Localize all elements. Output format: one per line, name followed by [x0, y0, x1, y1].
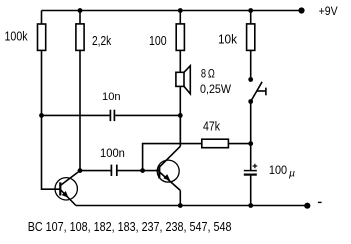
node bottom rail / T2 emitter: [178, 203, 183, 208]
wire 10k to switch: [250, 50, 252, 79]
node T1 collector / 2,2k / 100n: [78, 168, 83, 173]
resistor 2,2k: [76, 24, 84, 51]
resistor 47k: [202, 139, 229, 148]
transistor Q2: [157, 146, 180, 190]
node switch contact bottom: [248, 99, 253, 104]
switch S1 pushbutton: [251, 82, 266, 102]
wire 2,2k column bottom: [79, 50, 81, 170]
node T2 base / 100n / 47k: [140, 168, 145, 173]
terminal minus: [304, 203, 310, 209]
node 47k / 10k column: [248, 141, 253, 146]
capacitor 100n: [111, 165, 116, 176]
wire 2,2k column top: [79, 11, 81, 24]
wire 100k column top: [41, 11, 43, 25]
node bottom rail / 100u: [248, 203, 253, 208]
svg-text:+9V: +9V: [319, 4, 338, 18]
node T2 collector / 10n: [178, 113, 183, 118]
svg-text:47k: 47k: [203, 120, 221, 134]
node top rail / 10k: [248, 8, 253, 13]
svg-text:10k: 10k: [218, 32, 237, 47]
label minus: [318, 201, 322, 203]
wire 100 column top: [179, 11, 181, 24]
svg-text:100: 100: [269, 163, 287, 177]
capacitor 10n: [110, 110, 114, 121]
svg-text:2,2k: 2,2k: [92, 33, 112, 48]
wire 10k column top: [250, 11, 252, 24]
resistor 10k: [247, 24, 255, 51]
wire T2 collector riser: [179, 115, 181, 146]
svg-text:8 Ω: 8 Ω: [201, 67, 215, 81]
wire 47k right: [228, 143, 250, 145]
wire 100n left: [80, 170, 111, 172]
resistor 100: [176, 24, 184, 51]
svg-text:BC 107, 108, 182, 183, 237, 23: BC 107, 108, 182, 183, 237, 238, 547, 54…: [28, 219, 232, 234]
resistor 100k: [38, 24, 46, 50]
capacitor 100u electrolytic: [244, 164, 257, 175]
wire 100n right to T2 base: [118, 170, 160, 172]
wire 47k branch riser: [143, 144, 202, 171]
transistor Q1: [55, 171, 80, 206]
svg-text:10n: 10n: [102, 91, 121, 103]
wire 100u to bottom rail: [250, 175, 252, 206]
wire 100 to speaker: [179, 50, 181, 72]
wire speaker to T2 collector: [179, 86, 181, 146]
wire 100k column bottom to T1 base: [42, 50, 61, 189]
wire switch to 100u: [250, 102, 252, 171]
svg-text:0,25W: 0,25W: [200, 82, 232, 96]
node top rail / 100: [178, 8, 183, 13]
wire T2 emitter drop: [179, 190, 181, 205]
terminal +9V: [298, 7, 304, 13]
wire bottom rail: [76, 205, 307, 207]
svg-text:100n: 100n: [100, 148, 125, 160]
wire 10n branch left: [42, 114, 110, 116]
node 100k column / 10n: [39, 113, 44, 118]
svg-text:100k: 100k: [5, 28, 28, 43]
wire top +9V rail: [42, 10, 302, 12]
node switch contact top: [248, 77, 253, 82]
node top rail / 2,2k: [78, 8, 83, 13]
svg-text:100: 100: [149, 33, 167, 48]
svg-text:µ: µ: [289, 168, 295, 180]
wire 10n branch right: [115, 114, 180, 116]
speaker 8 ohm: [176, 66, 190, 94]
